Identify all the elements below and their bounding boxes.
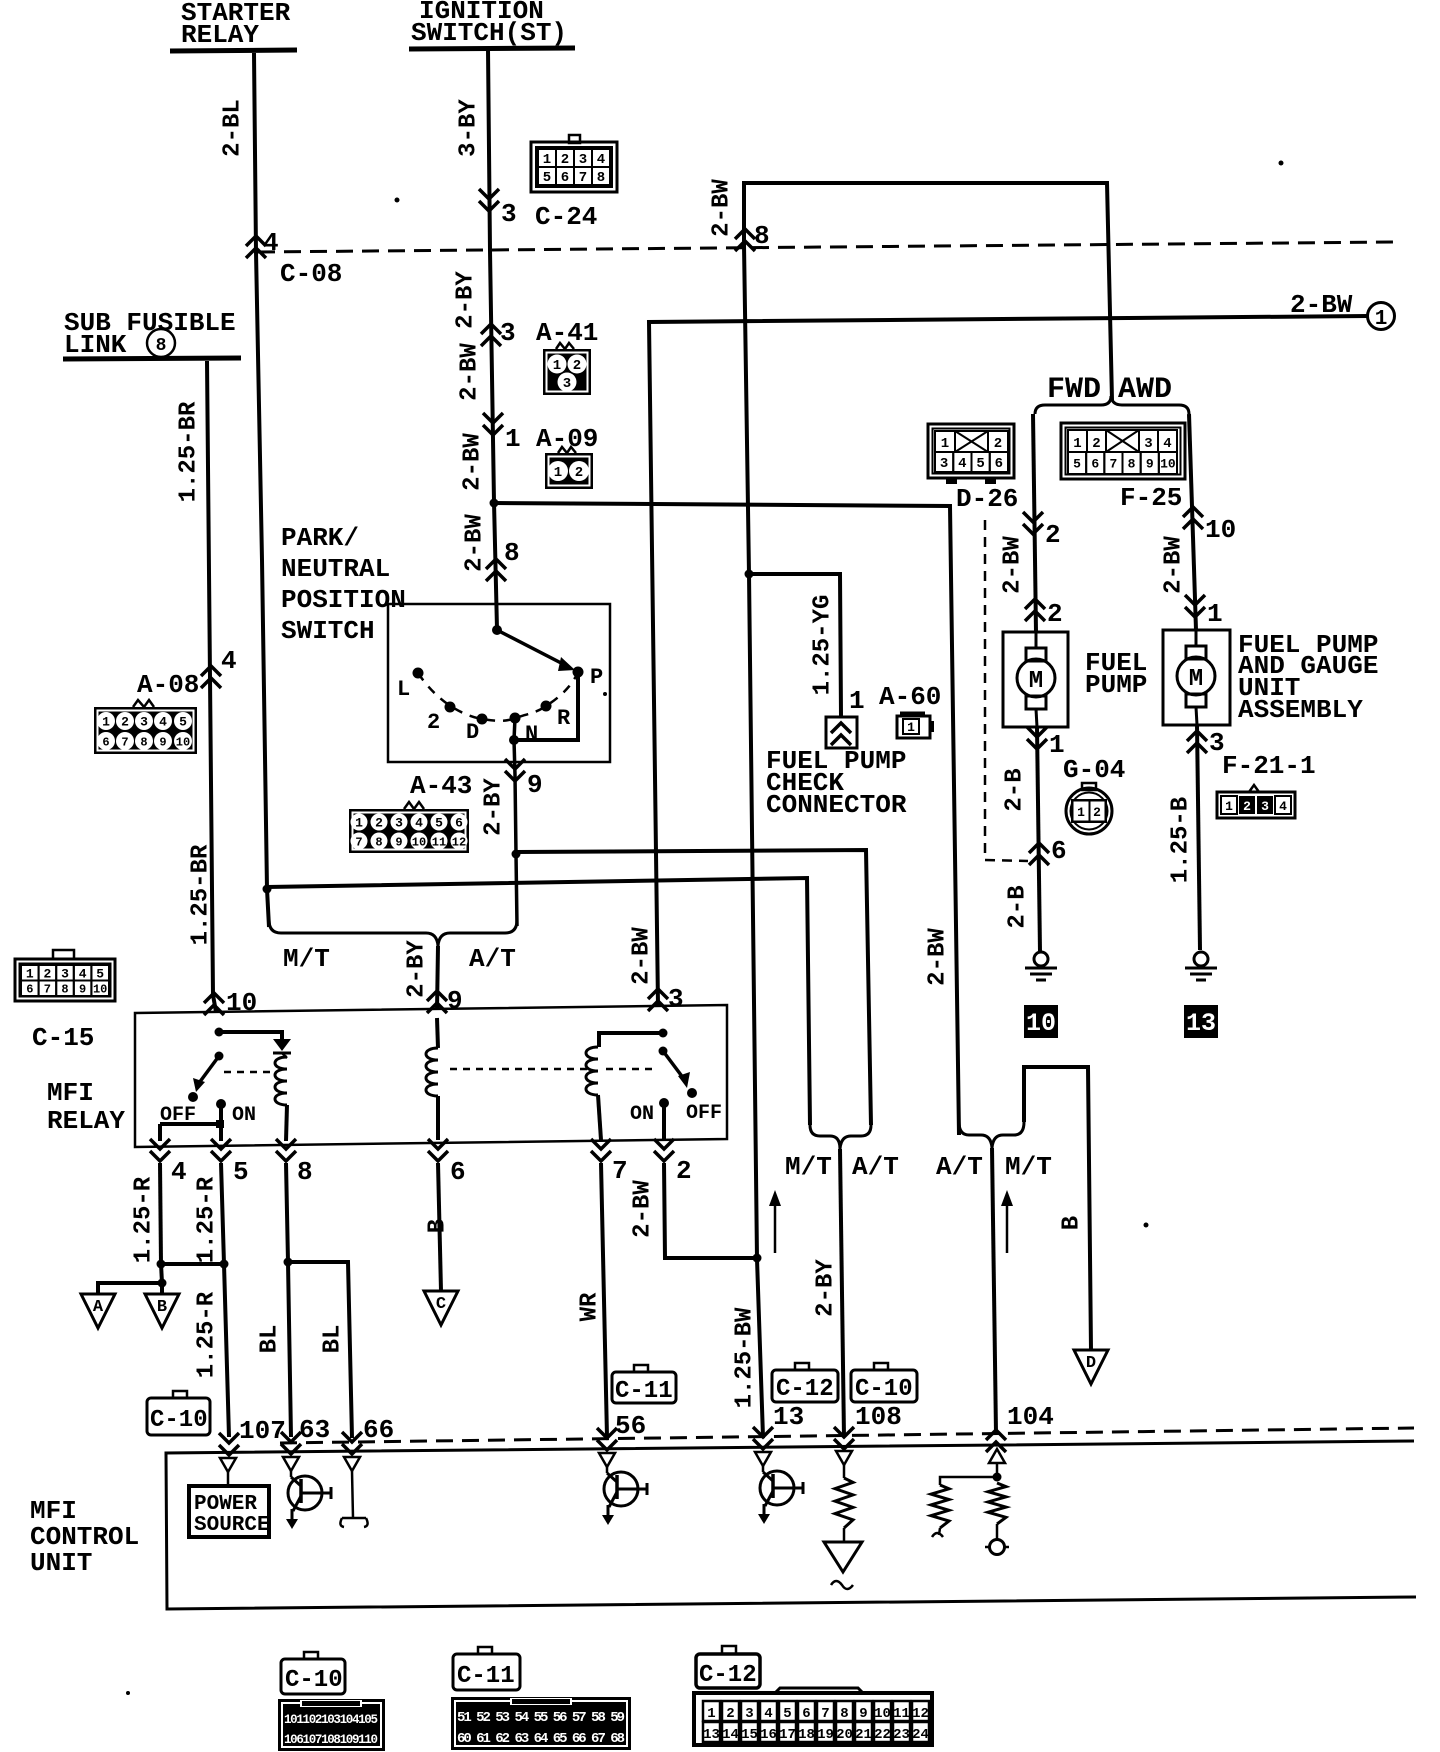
- svg-text:2: 2: [427, 710, 440, 735]
- connector D-26 pin 2 chevron: [1023, 512, 1043, 534]
- connector G-04: [1082, 783, 1096, 790]
- MFI relay pin 9 chevron: [427, 991, 447, 1013]
- relay3 switch pivot dot: [659, 1047, 668, 1056]
- connector A-41 pin 3 chevron: [481, 324, 501, 346]
- svg-text:OFF: OFF: [686, 1102, 722, 1125]
- relay1 junction dot a: [215, 1028, 224, 1037]
- ground fuel pump gauge: [1194, 952, 1208, 966]
- svg-text:2-BY: 2-BY: [453, 271, 480, 329]
- svg-text:2-BW: 2-BW: [630, 1180, 657, 1238]
- svg-text:2-BW: 2-BW: [709, 179, 736, 237]
- MFI transistor T3: [760, 1471, 794, 1505]
- svg-text:2-BW: 2-BW: [1000, 536, 1027, 594]
- MFI terminal circle: [990, 1540, 1005, 1555]
- svg-text:3: 3: [563, 376, 571, 392]
- dashed selector arc: [418, 672, 578, 721]
- svg-text:1: 1: [543, 152, 551, 168]
- MFI relay pin 10 chevron: [204, 993, 224, 1015]
- connector C-24: [569, 135, 580, 143]
- relay3 ON contact dot: [659, 1098, 669, 1108]
- svg-text:3: 3: [501, 199, 517, 229]
- svg-text:107: 107: [239, 1416, 286, 1446]
- MFI pin 107: [219, 1433, 239, 1455]
- fuel pump check connector box: [826, 717, 857, 748]
- svg-text:A: A: [93, 1298, 104, 1317]
- power source box: [189, 1486, 269, 1537]
- MFI transistor T2: [604, 1472, 638, 1506]
- relay1 ON contact dot: [216, 1099, 226, 1109]
- svg-text:UNIT: UNIT: [30, 1548, 92, 1578]
- svg-text:1: 1: [26, 966, 34, 981]
- connector A-60: [900, 712, 925, 715]
- wire BL branch to MFI pin 66: [288, 1262, 352, 1438]
- svg-text:2-BW: 2-BW: [925, 928, 952, 986]
- svg-text:16: 16: [760, 1727, 777, 1743]
- relay1 coil wire to pin 8: [286, 1105, 287, 1141]
- svg-text:4: 4: [79, 966, 87, 981]
- contact dot 2: [445, 702, 456, 713]
- svg-text:23: 23: [893, 1727, 910, 1743]
- svg-text:C-24: C-24: [535, 202, 597, 232]
- dashed MFI connector line: [280, 1428, 1414, 1443]
- relay3 coil: [586, 1047, 598, 1095]
- connector A-41: [556, 343, 574, 349]
- svg-text:C-12: C-12: [776, 1376, 834, 1403]
- junction dot YG branch: [745, 570, 754, 579]
- svg-text:11: 11: [893, 1706, 910, 1722]
- svg-text:G-04: G-04: [1063, 755, 1125, 785]
- svg-text:3: 3: [140, 715, 148, 730]
- svg-text:1: 1: [849, 686, 865, 716]
- junction dot M/T branch: [263, 885, 272, 894]
- svg-text:10: 10: [1026, 1009, 1056, 1038]
- svg-text:2: 2: [121, 715, 129, 730]
- svg-text:5: 5: [976, 456, 984, 472]
- MFI junction dot 104: [993, 1473, 1002, 1482]
- connector A-09: [558, 447, 576, 453]
- MFI transistor T1: [288, 1476, 322, 1510]
- ground fuel pump: [1034, 952, 1048, 966]
- svg-text:A/T: A/T: [936, 1152, 983, 1182]
- svg-text:AWD: AWD: [1118, 373, 1172, 407]
- svg-text:8: 8: [1128, 457, 1136, 472]
- svg-text:4: 4: [221, 646, 237, 676]
- relay1 diode: [273, 1039, 291, 1051]
- junction dot ignition branch: [490, 499, 499, 508]
- scan specks: [1279, 161, 1284, 166]
- wire pin5 down to MFI pin 107: [221, 1163, 229, 1437]
- svg-text:4: 4: [415, 816, 423, 831]
- svg-text:5: 5: [783, 1706, 791, 1722]
- svg-text:6: 6: [455, 816, 463, 831]
- svg-text:108: 108: [855, 1402, 902, 1432]
- wire pin7 WR to MFI pin 56: [601, 1163, 607, 1437]
- connector ref C-10 left: [173, 1391, 187, 1398]
- svg-text:1: 1: [553, 358, 561, 374]
- svg-text:6: 6: [450, 1157, 466, 1187]
- svg-text:7: 7: [579, 170, 587, 186]
- svg-text:2: 2: [573, 358, 581, 374]
- relay3 switch arm: [663, 1051, 684, 1079]
- svg-text:P: P: [590, 665, 603, 690]
- MFI resistor R3: [988, 1483, 1006, 1524]
- relay1 OFF contact dot: [188, 1092, 198, 1102]
- connector F-21-1: [1249, 785, 1259, 792]
- junction dot A/T branch: [512, 850, 521, 859]
- svg-text:C-10: C-10: [855, 1376, 913, 1403]
- svg-text:1: 1: [1375, 308, 1388, 331]
- svg-text:M/T: M/T: [785, 1152, 832, 1182]
- svg-text:2-B: 2-B: [1002, 768, 1029, 811]
- svg-text:8: 8: [61, 983, 68, 997]
- relay1 wire to diode: [219, 1032, 282, 1039]
- svg-text:ON: ON: [232, 1104, 256, 1127]
- contact dot D: [477, 714, 488, 725]
- svg-text:24: 24: [912, 1727, 929, 1743]
- wire 2-BL starter relay to MFI relay M/T branch: [254, 53, 269, 927]
- connector A-09 pin 1 chevron: [483, 413, 503, 435]
- svg-text:6: 6: [561, 170, 569, 186]
- svg-text:51 52 53 54 55 56 57 58 59: 51 52 53 54 55 56 57 58 59: [457, 1710, 625, 1726]
- svg-text:5: 5: [96, 966, 104, 981]
- connector C-11 bottom: [478, 1647, 492, 1654]
- svg-text:9: 9: [447, 986, 463, 1016]
- svg-text:2: 2: [994, 436, 1002, 452]
- switch common dot: [492, 625, 502, 635]
- wire 2-BW junction 8 down to MFI pin 13: [744, 245, 763, 1437]
- svg-text:L: L: [397, 677, 410, 702]
- svg-text:4: 4: [263, 228, 279, 258]
- park/neutral position switch box: [388, 604, 610, 762]
- svg-text:12: 12: [912, 1706, 929, 1722]
- svg-text:63: 63: [299, 1415, 330, 1445]
- svg-text:LINK: LINK: [64, 330, 127, 360]
- svg-text:MFI: MFI: [47, 1078, 94, 1108]
- wire M/T to ground D: [1024, 1067, 1091, 1350]
- wire 1.25-BR sub fusible link to relay pin 10: [207, 361, 216, 1012]
- relay2 coil: [426, 1048, 438, 1096]
- svg-text:2-BW: 2-BW: [460, 433, 487, 491]
- wire 2-BY brace to relay pin 9: [437, 946, 438, 1010]
- junction dot BL: [284, 1258, 293, 1267]
- svg-text:M: M: [1029, 668, 1043, 695]
- svg-text:10: 10: [176, 735, 190, 749]
- relay3 coil wire to pin 7: [598, 1095, 601, 1140]
- fuel pump pin 1 chevron: [1027, 727, 1047, 749]
- MFI relay pin 3 chevron: [648, 989, 668, 1011]
- svg-text:5: 5: [435, 816, 443, 831]
- svg-text:9: 9: [527, 770, 543, 800]
- svg-text:10: 10: [1205, 515, 1236, 545]
- connector G-04 pin 6 chevron: [1029, 843, 1049, 865]
- MFI pin 66: [342, 1432, 362, 1454]
- relay pin 6 chevron: [428, 1139, 448, 1161]
- svg-text:7: 7: [44, 983, 51, 997]
- junction dot pin2: [753, 1254, 762, 1263]
- svg-text:7: 7: [821, 1706, 829, 1722]
- wire 2-B pump to ground: [1037, 727, 1040, 952]
- connector A-08: [133, 700, 154, 707]
- MFI R1 ground triangle: [843, 1528, 846, 1542]
- svg-text:60 61 62 63 64 65 66 67 68: 60 61 62 63 64 65 66 67 68: [457, 1731, 625, 1747]
- relay3 ON wire to pin 2: [662, 1103, 666, 1140]
- contact dot L: [413, 668, 424, 679]
- svg-text:12: 12: [452, 835, 466, 849]
- svg-text:2: 2: [676, 1156, 692, 1186]
- svg-text:FWD: FWD: [1047, 373, 1101, 407]
- svg-text:C-08: C-08: [280, 259, 342, 289]
- svg-text:8: 8: [297, 1157, 313, 1187]
- brace upper M/T A/T: [810, 1125, 871, 1149]
- wire pin8 BL down to MFI pin 63: [286, 1163, 291, 1437]
- svg-text:1.25-BR: 1.25-BR: [188, 844, 215, 945]
- connector F-25 pin 10 chevron: [1183, 507, 1203, 529]
- relay1 ON wire to pins 4 5: [219, 1104, 223, 1141]
- svg-text:17: 17: [779, 1727, 796, 1743]
- dashed FWD enclosure: [985, 520, 1028, 861]
- svg-text:1: 1: [505, 424, 521, 454]
- wire P to N node: [514, 672, 578, 740]
- svg-text:5: 5: [1073, 457, 1081, 472]
- svg-text:NEUTRAL: NEUTRAL: [281, 554, 390, 584]
- MFI pin 104: [986, 1430, 1006, 1452]
- junction dot p5: [220, 1260, 229, 1269]
- svg-text:SWITCH(ST): SWITCH(ST): [411, 18, 567, 48]
- svg-text:C-15: C-15: [32, 1023, 94, 1053]
- connector C-12 bottom: [722, 1646, 736, 1654]
- flow arrow pin104: [1006, 1203, 1009, 1253]
- svg-text:7: 7: [1110, 457, 1118, 472]
- svg-text:6: 6: [102, 735, 109, 749]
- svg-text:B: B: [157, 1298, 167, 1317]
- svg-text:1: 1: [1207, 599, 1223, 629]
- svg-text:15: 15: [741, 1727, 758, 1743]
- svg-text:1: 1: [1073, 436, 1081, 452]
- svg-text:9: 9: [1146, 457, 1154, 472]
- svg-text:2-BY: 2-BY: [404, 940, 431, 998]
- fuel pump pin 2 chevron: [1025, 599, 1045, 621]
- ground A: [81, 1294, 115, 1328]
- wire to grounds AB: [161, 1264, 162, 1283]
- svg-text:1: 1: [102, 715, 110, 730]
- svg-text:2: 2: [43, 966, 51, 981]
- junction dot gnd: [158, 1279, 167, 1288]
- svg-text:10: 10: [412, 835, 426, 849]
- svg-text:10: 10: [93, 983, 107, 997]
- svg-text:7: 7: [121, 735, 128, 749]
- page ref 10: [1024, 1005, 1058, 1038]
- svg-text:3: 3: [668, 984, 684, 1014]
- svg-text:1.25-R: 1.25-R: [194, 1291, 221, 1378]
- svg-text:8: 8: [375, 835, 382, 849]
- MFI pin 63: [281, 1432, 301, 1454]
- svg-text:B: B: [425, 1219, 452, 1233]
- junction dot p4: [157, 1260, 166, 1269]
- wire 2-BY brace to MFI pin 108: [840, 1149, 844, 1437]
- svg-text:2-BW: 2-BW: [462, 514, 489, 572]
- wire 2-BW from junction 8 to FWD/AWD brace: [744, 183, 1112, 400]
- svg-text:5: 5: [179, 715, 187, 730]
- relay1 coil: [275, 1057, 287, 1105]
- svg-text:A/T: A/T: [469, 944, 516, 974]
- svg-text:1: 1: [941, 436, 949, 452]
- svg-text:D: D: [1086, 1354, 1096, 1373]
- fuel pump motor: [1026, 648, 1046, 661]
- junction dot N node: [509, 735, 519, 745]
- svg-text:C-10: C-10: [150, 1407, 208, 1434]
- svg-text:10: 10: [1160, 457, 1176, 472]
- wire 1.25-B to ground: [1197, 725, 1200, 950]
- brace lower M/T A/T: [269, 920, 517, 946]
- brace FWD AWD: [1035, 396, 1189, 414]
- relay3 wire to coil: [599, 1033, 663, 1047]
- wire 2-BW to terminal 1: [649, 316, 1368, 1005]
- svg-text:2: 2: [1045, 520, 1061, 550]
- svg-text:21: 21: [855, 1727, 872, 1743]
- svg-text:22: 22: [874, 1727, 891, 1743]
- svg-text:10: 10: [874, 1706, 891, 1722]
- svg-text:2-B: 2-B: [1005, 885, 1032, 928]
- relay1 switch arm: [199, 1056, 219, 1083]
- wire pin6 to ground C: [438, 1163, 441, 1291]
- svg-text:9: 9: [79, 983, 86, 997]
- svg-text:M/T: M/T: [1005, 1152, 1052, 1182]
- svg-text:3: 3: [940, 456, 948, 472]
- wire 3-BY ignition switch down to park/neutral switch: [488, 49, 497, 629]
- contact dot N: [510, 713, 521, 724]
- svg-text:1.25-R: 1.25-R: [131, 1176, 158, 1263]
- svg-text:1.25-YG: 1.25-YG: [810, 595, 837, 696]
- connector A-43: [404, 802, 424, 809]
- svg-text:4: 4: [1279, 799, 1287, 814]
- svg-text:1: 1: [1225, 799, 1233, 814]
- fuel pump gauge pin 1 chevron: [1185, 595, 1205, 617]
- svg-text:N: N: [525, 722, 538, 747]
- svg-text:3: 3: [579, 152, 587, 168]
- MFI resistor R1: [835, 1478, 853, 1528]
- relay1 mech dashed link: [224, 1071, 272, 1074]
- svg-text:A-43: A-43: [410, 771, 472, 801]
- svg-text:8: 8: [140, 735, 147, 749]
- svg-text:8: 8: [597, 170, 605, 186]
- svg-text:1: 1: [907, 720, 915, 735]
- flow arrow pin13: [774, 1203, 777, 1253]
- svg-text:6: 6: [802, 1706, 810, 1722]
- svg-text:4: 4: [597, 152, 605, 168]
- svg-text:14: 14: [722, 1727, 739, 1743]
- svg-text:A-08: A-08: [137, 670, 199, 700]
- svg-text:1.25-B: 1.25-B: [1168, 797, 1195, 883]
- fuel pump box: [1003, 632, 1068, 727]
- relay pin 7 chevron: [591, 1139, 611, 1161]
- relay3 OFF contact dot: [687, 1088, 697, 1098]
- svg-text:A/T: A/T: [852, 1152, 899, 1182]
- svg-text:SOURCE: SOURCE: [194, 1514, 270, 1537]
- svg-text:6: 6: [26, 983, 33, 997]
- svg-text:ON: ON: [630, 1103, 654, 1126]
- connector ref C-12: [795, 1363, 809, 1370]
- svg-text:8: 8: [754, 221, 770, 251]
- svg-text:1: 1: [707, 1706, 715, 1722]
- wire to ground B: [160, 1283, 164, 1294]
- svg-text:C: C: [436, 1295, 446, 1314]
- svg-text:2: 2: [375, 816, 383, 831]
- svg-text:2: 2: [726, 1706, 734, 1722]
- svg-text:4: 4: [171, 1157, 187, 1187]
- svg-text:5: 5: [543, 170, 551, 186]
- svg-text:R: R: [557, 706, 571, 731]
- svg-text:2: 2: [1093, 805, 1101, 820]
- svg-text:4: 4: [159, 715, 167, 730]
- terminal circle 1: [1368, 303, 1395, 330]
- connector F-21-1 pin 3 chevron: [1187, 731, 1207, 753]
- svg-text:3-BY: 3-BY: [456, 99, 483, 157]
- wire 2-BW ignition to A/T bracket: [494, 503, 959, 1135]
- svg-text:ASSEMBLY: ASSEMBLY: [1238, 695, 1363, 725]
- svg-text:CONNECTOR: CONNECTOR: [766, 790, 907, 820]
- fuel pump gauge box: [1163, 630, 1230, 725]
- switch arm to P: [497, 630, 563, 664]
- svg-text:2-BW: 2-BW: [1290, 290, 1353, 320]
- junction bar pins45: [161, 1262, 224, 1266]
- svg-text:7: 7: [355, 835, 362, 849]
- svg-text:2-BY: 2-BY: [481, 778, 508, 836]
- svg-text:C-12: C-12: [699, 1662, 757, 1689]
- svg-text:10: 10: [226, 988, 257, 1018]
- svg-text:2: 2: [1047, 599, 1063, 629]
- wire M/T branch to upper brace: [267, 878, 810, 1125]
- relay mech dashed link middle: [450, 1068, 590, 1071]
- svg-text:BL: BL: [320, 1325, 347, 1354]
- svg-text:B: B: [1059, 1216, 1086, 1230]
- wire to ground A: [98, 1283, 162, 1294]
- svg-text:3: 3: [1261, 799, 1269, 814]
- wire A/T branch to upper brace: [516, 850, 871, 1125]
- wire bracket to MFI pin 104: [992, 1148, 996, 1433]
- wire F-25 to fuel pump gauge: [1189, 414, 1196, 630]
- ground B: [145, 1294, 179, 1328]
- svg-text:106107108109110: 106107108109110: [284, 1733, 378, 1747]
- svg-text:13: 13: [1186, 1009, 1216, 1038]
- svg-text:2-BW: 2-BW: [457, 343, 484, 401]
- wire pin2 to junction: [664, 1163, 757, 1258]
- relay2 coil wire from pin 9: [437, 1018, 438, 1048]
- svg-text:F-21-1: F-21-1: [1222, 751, 1316, 781]
- svg-text:19: 19: [817, 1727, 834, 1743]
- svg-text:5: 5: [233, 1157, 249, 1187]
- MFI pin 13: [753, 1427, 773, 1449]
- relay1 switch pivot dot: [215, 1052, 224, 1061]
- svg-text:A-60: A-60: [879, 682, 941, 712]
- contact dot P: [573, 667, 584, 678]
- wire 1.25-YG to fuel pump check connector: [749, 574, 841, 716]
- svg-text:C-10: C-10: [285, 1667, 343, 1694]
- svg-text:8: 8: [840, 1706, 848, 1722]
- svg-text:8: 8: [504, 538, 520, 568]
- connector ref C-11: [634, 1365, 648, 1372]
- svg-text:20: 20: [836, 1727, 853, 1743]
- svg-text:2-BL: 2-BL: [220, 99, 247, 157]
- svg-text:RELAY: RELAY: [47, 1106, 125, 1136]
- svg-text:3: 3: [395, 816, 403, 831]
- svg-text:BL: BL: [257, 1325, 284, 1354]
- svg-text:1: 1: [1077, 805, 1085, 820]
- svg-text:M: M: [1189, 666, 1203, 693]
- svg-text:101102103104105: 101102103104105: [284, 1713, 378, 1727]
- junction 4 connector C-08 chevron: [246, 236, 266, 258]
- svg-text:8: 8: [156, 336, 167, 356]
- svg-text:2: 2: [561, 152, 569, 168]
